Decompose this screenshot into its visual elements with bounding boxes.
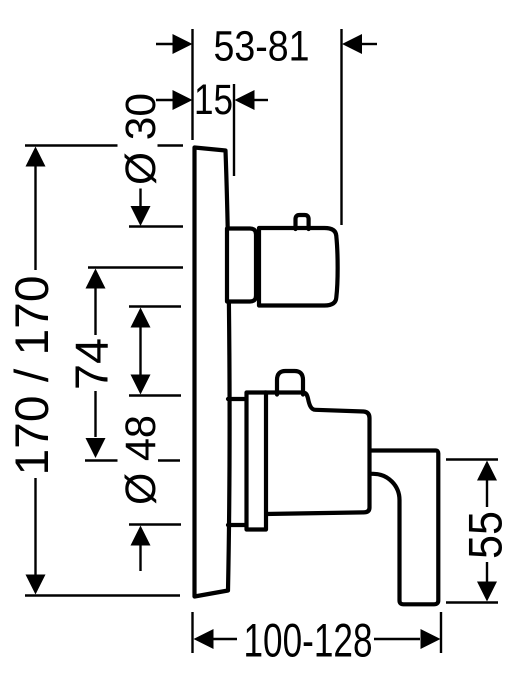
svg-text:Ø 30: Ø 30 bbox=[118, 93, 165, 185]
wall plate (escutcheon, side view) bbox=[195, 148, 230, 597]
lever handle bbox=[371, 451, 438, 605]
dim 100-128 extension line left bbox=[191, 612, 193, 653]
dim diameter 48 top tick bbox=[129, 394, 181, 396]
dim diameter 48 bottom tick bbox=[129, 523, 181, 525]
upper cartridge sleeve bbox=[227, 229, 256, 302]
lower flange B bbox=[247, 393, 267, 530]
chain tick at cartridge bottom bbox=[129, 305, 181, 307]
dim 74 top tick bbox=[88, 266, 183, 268]
dim diameter 30 leader arrow bbox=[139, 189, 141, 207]
dim 15 extension line right bbox=[233, 84, 235, 176]
dim 170/170 bottom tick bbox=[25, 594, 180, 596]
svg-text:74: 74 bbox=[65, 338, 117, 390]
dim 15 right arrow bbox=[254, 99, 269, 101]
dim 74 bottom tick bbox=[85, 459, 180, 461]
dim diameter 30 bottom tick bbox=[129, 225, 183, 227]
svg-text:170 / 170: 170 / 170 bbox=[6, 276, 59, 476]
lower valve body bbox=[265, 393, 370, 515]
chain arrows between cartridge and valve bbox=[131, 308, 151, 328]
dim 170/170 top tick bbox=[25, 144, 183, 146]
dim 53-81 extension line left bbox=[191, 29, 193, 140]
dim 15 left arrow bbox=[156, 99, 173, 101]
dim 100-128 extension line right bbox=[440, 612, 442, 653]
svg-text:Ø 48: Ø 48 bbox=[118, 415, 165, 505]
upper thermostat cartridge body bbox=[259, 228, 338, 306]
svg-text:55: 55 bbox=[460, 511, 513, 559]
dim 100-128 left arrow bbox=[194, 629, 214, 649]
dim 170/170 dimension line and arrows bbox=[34, 166, 36, 576]
dim diameter 48 lower outside arrow bbox=[131, 526, 151, 546]
dim 55 top tick bbox=[446, 458, 498, 460]
dim 100-128 right arrow bbox=[374, 638, 420, 640]
dome knob on lower valve bbox=[277, 371, 303, 395]
svg-text:53-81: 53-81 bbox=[214, 23, 310, 71]
dim 53-81 left arrow bbox=[156, 43, 173, 45]
dim 55 dimension line and arrows bbox=[477, 461, 497, 481]
svg-text:100-128: 100-128 bbox=[244, 615, 373, 668]
dim 74 dimension line and arrows bbox=[86, 269, 106, 289]
dim 55 bottom tick bbox=[446, 601, 498, 603]
lower valve sleeve lines (flange A) bbox=[228, 399, 247, 525]
svg-text:15: 15 bbox=[194, 77, 233, 124]
button on top of cartridge bbox=[296, 215, 309, 229]
dim 53-81 right arrow bbox=[361, 43, 377, 45]
dim 53-81 extension line right bbox=[340, 29, 342, 225]
